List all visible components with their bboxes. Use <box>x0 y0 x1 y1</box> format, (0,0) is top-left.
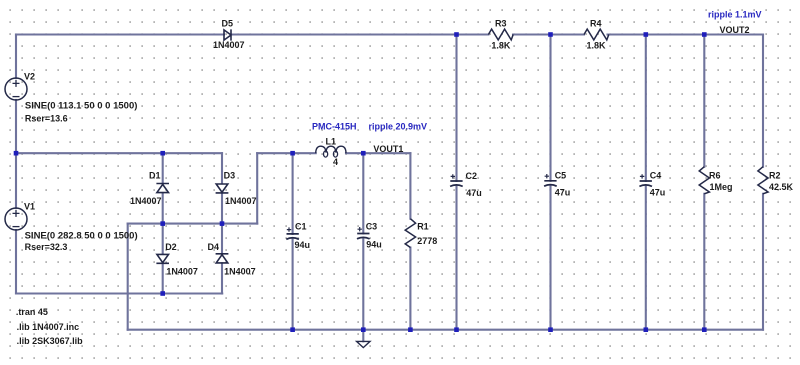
svg-text:C2: C2 <box>466 171 478 181</box>
svg-text:C4: C4 <box>650 171 662 181</box>
capacitor C4 <box>639 181 652 186</box>
svg-text:R3: R3 <box>495 19 507 29</box>
wire C2 lower lead <box>455 186 457 330</box>
wire R6 lower lead <box>703 194 705 330</box>
svg-text:R1: R1 <box>417 222 429 232</box>
inductor L1 <box>316 146 346 153</box>
svg-text:SINE(0 113.1 50 0 0 1500): SINE(0 113.1 50 0 0 1500) <box>25 101 137 112</box>
diode D2 <box>156 254 169 263</box>
svg-text:Rser=13.6: Rser=13.6 <box>25 114 68 124</box>
wire D4 branch upper <box>221 224 223 254</box>
svg-text:47u: 47u <box>466 188 482 198</box>
wire D3 branch lower <box>221 193 223 224</box>
svg-text:94u: 94u <box>295 240 311 250</box>
svg-text:VOUT1: VOUT1 <box>373 144 403 154</box>
svg-text:1N4007: 1N4007 <box>213 40 245 50</box>
node lower rail junction <box>160 291 165 296</box>
diode D5 <box>224 29 231 40</box>
wire bridge left drop x=127.7 <box>127 224 129 330</box>
svg-text:1.8K: 1.8K <box>491 41 511 51</box>
wire D2 branch lower <box>162 263 164 293</box>
svg-text:D3: D3 <box>224 171 236 181</box>
capacitor C1 <box>286 234 299 239</box>
svg-text:D5: D5 <box>222 19 234 29</box>
svg-text:1N4007: 1N4007 <box>130 196 162 206</box>
ground <box>357 341 370 347</box>
svg-text:94u: 94u <box>366 240 382 250</box>
voltage source V2 <box>5 78 27 100</box>
wire D1 branch upper <box>162 153 164 183</box>
node mid rail junctions <box>160 221 165 226</box>
svg-text:1N4007: 1N4007 <box>225 196 257 206</box>
svg-text:.lib 2SK3067.lib: .lib 2SK3067.lib <box>17 336 84 346</box>
wire C3 lower lead <box>362 239 364 330</box>
wire C3 upper lead <box>362 153 364 233</box>
svg-text:C1: C1 <box>295 222 307 232</box>
wire V2 bottom to junction <box>15 100 17 153</box>
svg-text:1N4007: 1N4007 <box>166 267 198 277</box>
svg-text:L1: L1 <box>326 137 337 147</box>
svg-text:.tran 45: .tran 45 <box>16 307 48 317</box>
voltage source V1 <box>5 208 27 230</box>
wire C1 upper lead <box>292 153 294 234</box>
wire R6 upper lead <box>703 35 705 167</box>
svg-text:SINE(0 282.8 50 0 0 1500): SINE(0 282.8 50 0 0 1500) <box>25 231 138 242</box>
wire top rail left of D5 <box>16 33 224 35</box>
resistor R3 <box>488 29 513 40</box>
svg-text:ripple 1.1mV: ripple 1.1mV <box>708 10 762 20</box>
wire D2 branch upper <box>162 224 164 254</box>
wire R2 upper lead <box>762 35 764 167</box>
node ground bus junctions <box>290 327 295 332</box>
wire mid rail y=223.6 <box>128 223 258 225</box>
wire R1 upper lead <box>409 153 411 219</box>
resistor R1 <box>405 219 415 248</box>
wire left vertical x=16 top to V2 <box>15 35 17 79</box>
diode D4 <box>216 254 229 263</box>
svg-text:1Meg: 1Meg <box>710 182 733 192</box>
svg-text:C3: C3 <box>366 222 378 232</box>
wire riser x=257 bridge output <box>256 153 258 223</box>
wire R2 lower lead <box>762 194 764 330</box>
wire ground bus y=329.7 <box>128 329 763 331</box>
diode D3 <box>216 184 229 193</box>
wire top rail D5 to C2 junction and beyond through R gaps <box>232 33 489 35</box>
svg-text:C5: C5 <box>555 171 567 181</box>
wire D1 branch lower <box>162 193 164 224</box>
wire C2 upper lead <box>455 35 457 182</box>
svg-text:1N4007: 1N4007 <box>224 267 256 277</box>
svg-text:1.8K: 1.8K <box>587 41 607 51</box>
svg-text:VOUT2: VOUT2 <box>720 25 750 35</box>
wire C5 upper lead <box>549 35 551 181</box>
resistor R2 <box>758 167 768 194</box>
svg-text:4: 4 <box>333 157 338 167</box>
wire C4 upper lead <box>645 35 647 182</box>
wire ground stub <box>362 330 364 342</box>
svg-text:D1: D1 <box>149 171 161 181</box>
wire V1 bottom to lower-left corner <box>15 230 17 294</box>
wire C1 lower lead <box>292 239 294 330</box>
svg-text:47u: 47u <box>650 188 666 198</box>
svg-text:42.5K: 42.5K <box>769 182 794 192</box>
wire AC rail y=153 left <box>16 152 222 154</box>
wire C5 lower lead <box>549 186 551 330</box>
node top rail junctions <box>454 32 459 37</box>
wire D4 branch lower <box>221 263 223 293</box>
wire lower rail y=293.5 <box>16 292 222 294</box>
svg-text:.lib 1N4007.inc: .lib 1N4007.inc <box>17 322 80 332</box>
capacitor C5 <box>544 181 557 186</box>
wire C4 lower lead <box>645 186 647 330</box>
wire R1 lower lead <box>409 248 411 330</box>
capacitor C2 <box>450 181 463 186</box>
wire junction to V1 top <box>15 153 17 208</box>
svg-text:R4: R4 <box>590 19 602 29</box>
svg-text:D2: D2 <box>165 242 177 252</box>
resistor R4 <box>584 29 609 40</box>
svg-text:PMC-415H: PMC-415H <box>312 122 357 132</box>
capacitor C3 <box>357 234 370 239</box>
svg-text:47u: 47u <box>555 188 571 198</box>
svg-text:V2: V2 <box>24 72 35 82</box>
svg-text:D4: D4 <box>208 242 220 252</box>
resistor R6 <box>699 167 709 194</box>
svg-text:2778: 2778 <box>417 236 437 246</box>
wire VOUT1 rail left of L1 <box>257 152 316 154</box>
svg-text:ripple 20.9mV: ripple 20.9mV <box>369 122 428 132</box>
node AC rail junctions <box>14 151 19 156</box>
svg-text:V1: V1 <box>24 202 35 212</box>
svg-text:Rser=32.3: Rser=32.3 <box>25 242 68 252</box>
wire VOUT1 rail right of L1 <box>346 152 410 154</box>
diode D1 <box>156 184 169 193</box>
wire D3 branch upper <box>221 153 223 183</box>
svg-text:R2: R2 <box>769 171 781 181</box>
svg-text:R6: R6 <box>709 171 721 181</box>
